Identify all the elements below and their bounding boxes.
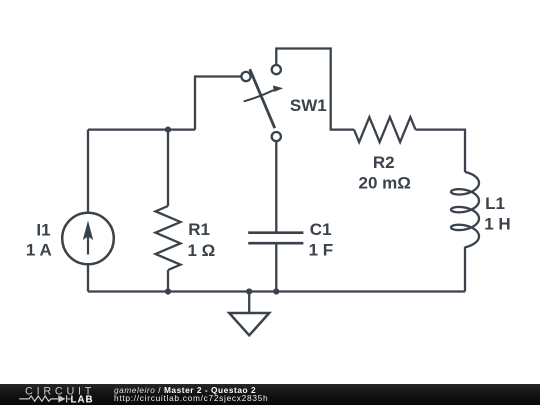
svg-text:L1: L1 [485, 194, 505, 213]
svg-text:1 A: 1 A [26, 241, 52, 260]
svg-text:1 F: 1 F [309, 241, 334, 260]
svg-text:20 mΩ: 20 mΩ [359, 173, 411, 192]
svg-text:I1: I1 [36, 220, 50, 239]
svg-text:R1: R1 [188, 220, 210, 239]
svg-text:LAB: LAB [71, 395, 94, 405]
svg-text:1 H: 1 H [484, 214, 510, 233]
svg-text:R2: R2 [373, 153, 395, 172]
svg-text:C1: C1 [310, 220, 332, 239]
svg-text:SW1: SW1 [290, 96, 327, 115]
svg-text:1 Ω: 1 Ω [188, 241, 216, 260]
